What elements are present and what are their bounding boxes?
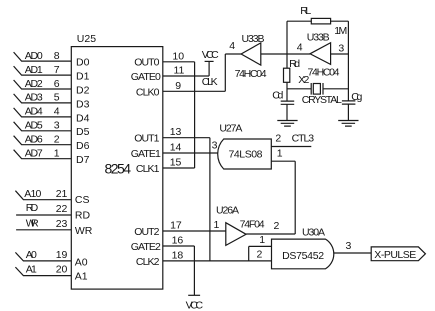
wire crystal right lead — [323, 88, 348, 90]
crystal X2 left plate — [310, 83, 312, 95]
svg-text:2: 2 — [274, 220, 280, 232]
svg-text:22: 22 — [56, 203, 68, 215]
power VCC top stem — [208, 61, 210, 76]
svg-text:Cg: Cg — [351, 91, 362, 103]
svg-text:D4: D4 — [76, 112, 90, 124]
wire Cd to ground — [286, 104, 288, 120]
wire GATE0 pin11 — [163, 75, 209, 77]
power VCC bottom bar — [188, 294, 200, 296]
svg-text:AD5: AD5 — [25, 120, 43, 132]
svg-text:4: 4 — [229, 40, 235, 52]
power VCC bottom stem — [193, 246, 195, 295]
wire U26A output — [246, 233, 295, 235]
wire CLK0 pin9 — [163, 90, 226, 92]
svg-text:AD3: AD3 — [25, 92, 43, 104]
svg-text:A0: A0 — [75, 256, 88, 268]
svg-text:D1: D1 — [76, 71, 90, 83]
crystal X2 body — [313, 84, 320, 95]
svg-text:X2: X2 — [298, 74, 309, 86]
wire oscillator left vertical — [286, 21, 288, 68]
svg-text:74HC04: 74HC04 — [308, 67, 340, 79]
wire A10/CS — [15, 191, 71, 200]
resistor Rd — [284, 68, 290, 82]
wire oscillator top left — [287, 20, 311, 22]
svg-text:74LS08: 74LS08 — [229, 148, 263, 160]
net flag X-PULSE — [371, 247, 425, 261]
svg-text:3: 3 — [54, 120, 60, 132]
wire D0 — [14, 52, 72, 61]
svg-text:OUT2: OUT2 — [134, 226, 159, 238]
wire D2 — [14, 80, 72, 89]
svg-text:X-PULSE: X-PULSE — [374, 249, 416, 261]
wire CLK1 pin15 — [163, 167, 195, 169]
svg-text:2: 2 — [257, 249, 263, 261]
svg-text:AD2: AD2 — [25, 78, 43, 90]
svg-text:DS75452: DS75452 — [282, 250, 324, 262]
svg-text:RD: RD — [75, 210, 91, 222]
svg-text:19: 19 — [56, 249, 68, 261]
svg-text:16: 16 — [172, 235, 184, 247]
svg-text:A1: A1 — [75, 271, 88, 283]
svg-text:RL: RL — [300, 5, 311, 17]
wire U27A pin1 down — [294, 161, 296, 234]
svg-text:GATE1: GATE1 — [131, 148, 161, 160]
svg-text:23: 23 — [56, 218, 68, 230]
wire CTL3 net pin2 — [271, 146, 311, 148]
svg-text:15: 15 — [170, 157, 182, 169]
svg-text:U26A: U26A — [216, 205, 239, 217]
svg-text:D2: D2 — [76, 84, 90, 96]
svg-text:U33B: U33B — [242, 33, 265, 45]
svg-text:U30A: U30A — [302, 227, 325, 239]
svg-text:CRYSTAL: CRYSTAL — [302, 94, 342, 106]
inverter U33B left — [241, 43, 261, 65]
svg-text:1: 1 — [277, 148, 283, 160]
svg-text:8: 8 — [54, 50, 60, 62]
svg-text:74F04: 74F04 — [240, 218, 265, 230]
svg-text:CS: CS — [75, 194, 90, 206]
svg-text:U25: U25 — [77, 33, 96, 45]
wire GATE2 pin16 — [163, 245, 195, 247]
svg-text:D6: D6 — [76, 140, 90, 152]
inverter U33B right — [310, 43, 331, 65]
wire RD — [16, 214, 71, 216]
svg-text:1: 1 — [54, 148, 60, 160]
svg-text:74HC04: 74HC04 — [235, 68, 267, 80]
ground under Cg — [338, 121, 358, 127]
wire D7 — [14, 150, 72, 159]
svg-text:VCC: VCC — [202, 49, 219, 61]
svg-text:13: 13 — [170, 126, 182, 138]
wire D4 — [14, 108, 72, 117]
svg-text:RD: RD — [26, 202, 39, 214]
svg-text:4: 4 — [54, 106, 60, 118]
capacitor Cd plates — [281, 101, 295, 104]
svg-text:CLK: CLK — [202, 76, 218, 88]
svg-text:AD0: AD0 — [25, 50, 43, 62]
svg-text:CLK1: CLK1 — [136, 163, 160, 175]
wire D5 — [14, 122, 72, 131]
wire CLK2 pin18 net to U30A pin2 — [163, 260, 272, 262]
svg-text:17: 17 — [170, 220, 182, 232]
svg-text:11: 11 — [174, 65, 185, 77]
ground under Cd — [277, 121, 297, 127]
wire U33B-left input — [261, 53, 310, 55]
wire oscillator top right — [331, 20, 349, 22]
svg-text:OUT0: OUT0 — [134, 57, 159, 69]
svg-text:7: 7 — [54, 64, 60, 76]
svg-text:18: 18 — [172, 249, 184, 261]
svg-text:A1: A1 — [26, 264, 37, 276]
svg-text:3: 3 — [212, 140, 218, 152]
svg-text:OUT1: OUT1 — [134, 133, 159, 145]
wire CLK riser — [224, 54, 226, 91]
svg-text:21: 21 — [56, 188, 68, 200]
svg-text:WR: WR — [26, 217, 39, 229]
wire oscillator right vertical — [347, 21, 349, 101]
IC U25 body — [71, 47, 163, 290]
svg-text:Cd: Cd — [272, 90, 283, 102]
wire CLK to U33B output — [225, 53, 241, 55]
svg-text:AD1: AD1 — [25, 64, 43, 76]
wire OUT0 pin10 — [163, 61, 195, 63]
svg-text:1: 1 — [214, 219, 220, 231]
svg-text:14: 14 — [170, 142, 182, 154]
svg-text:U27A: U27A — [219, 122, 242, 134]
svg-text:Rd: Rd — [289, 58, 300, 70]
svg-text:CLK2: CLK2 — [136, 256, 160, 268]
wire OUT1 down to CLK2 net — [209, 138, 211, 261]
svg-text:D3: D3 — [76, 98, 90, 110]
and-gate U27A body — [218, 139, 272, 169]
wire GATE1 pin14 — [163, 152, 218, 154]
wire crystal left lead — [287, 88, 311, 90]
wire OUT0 to CLK1 vertical — [194, 62, 196, 168]
wire A0 — [15, 252, 71, 261]
wire OUT2 pin17 — [163, 230, 226, 232]
svg-text:3: 3 — [338, 42, 344, 54]
wire A1 — [15, 267, 71, 276]
svg-text:CLK0: CLK0 — [136, 86, 160, 98]
svg-text:1M: 1M — [334, 25, 347, 37]
wire D1 — [14, 66, 72, 75]
svg-text:3: 3 — [346, 240, 352, 252]
svg-text:A10: A10 — [24, 188, 41, 200]
svg-text:CTL3: CTL3 — [292, 132, 315, 144]
crystal X2 right plate — [322, 83, 324, 95]
wire U30A output pin3 — [334, 252, 371, 254]
wire Rd to crystal node — [286, 82, 288, 101]
svg-text:2: 2 — [54, 134, 60, 146]
inverter U26A — [226, 223, 246, 246]
resistor RL — [311, 18, 330, 24]
wire D3 — [14, 94, 72, 103]
power VCC top bar — [205, 60, 214, 62]
svg-text:5: 5 — [54, 92, 60, 104]
svg-text:D7: D7 — [76, 154, 90, 166]
svg-text:AD6: AD6 — [25, 134, 43, 146]
svg-text:AD7: AD7 — [25, 148, 43, 160]
svg-text:20: 20 — [56, 264, 68, 276]
capacitor Cg plates — [342, 101, 356, 104]
svg-text:AD4: AD4 — [25, 106, 43, 118]
svg-text:U33B: U33B — [307, 32, 330, 44]
wire OUT1 pin13 — [163, 137, 210, 139]
wire U33B-right input pin3 — [331, 53, 349, 55]
wire WR — [16, 229, 71, 231]
wire Cg to ground — [347, 104, 349, 120]
wire U27A pin1 — [271, 160, 295, 162]
svg-text:8254: 8254 — [105, 161, 132, 177]
wire U30A pin1 — [249, 245, 272, 247]
svg-text:9: 9 — [175, 80, 181, 92]
wire D6 — [14, 136, 72, 145]
svg-text:2: 2 — [275, 132, 281, 144]
svg-text:VCC: VCC — [186, 299, 204, 311]
svg-text:4: 4 — [297, 42, 303, 54]
wire U30A pin1 branch vertical — [248, 246, 250, 261]
svg-text:GATE2: GATE2 — [131, 241, 161, 253]
svg-text:1: 1 — [259, 234, 265, 246]
driver U30A body — [272, 239, 334, 269]
svg-text:A0: A0 — [26, 249, 37, 261]
svg-text:10: 10 — [172, 50, 184, 62]
svg-text:D0: D0 — [76, 57, 90, 69]
svg-text:WR: WR — [75, 225, 93, 237]
svg-text:6: 6 — [54, 78, 60, 90]
svg-text:GATE0: GATE0 — [131, 71, 161, 83]
svg-text:D5: D5 — [76, 126, 90, 138]
